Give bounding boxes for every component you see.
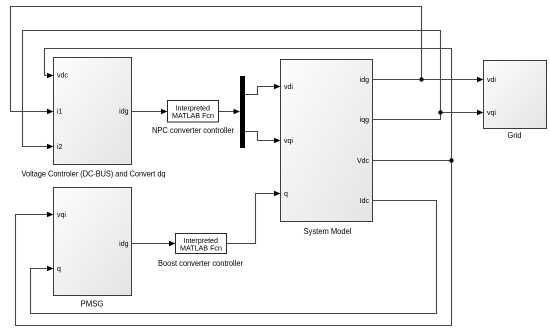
svg-text:Idc: Idc — [360, 198, 370, 205]
wire demux out1 -> System Model vdi — [245, 87, 275, 95]
svg-text:MATLAB Fcn: MATLAB Fcn — [172, 111, 214, 120]
junction on iqg wire — [438, 110, 442, 114]
svg-text:Vdc: Vdc — [357, 158, 370, 165]
svg-text:Grid: Grid — [508, 130, 522, 140]
junction on Vdc wire — [449, 158, 453, 162]
wire PMSG idg -> Boost fcn — [132, 243, 171, 245]
arrow into demux — [234, 109, 241, 115]
svg-text:MATLAB Fcn: MATLAB Fcn — [180, 244, 222, 253]
wire System Model iqg -> Grid vqi — [373, 113, 479, 120]
wire NPC fcn -> demux — [219, 111, 236, 113]
wire feedback Vdc -> vdc — [45, 49, 452, 161]
wire Boost fcn -> System Model q — [227, 194, 276, 244]
subsystem Grid — [484, 61, 547, 141]
svg-text:vdc: vdc — [57, 73, 68, 80]
svg-text:q: q — [284, 191, 288, 198]
subsystem Voltage Controler (DC-BUS) and Convert dq — [22, 58, 166, 179]
arrow into vdc — [47, 73, 54, 79]
svg-text:idg: idg — [119, 109, 128, 116]
svg-text:q: q — [57, 266, 61, 273]
arrow into Grid vdi — [477, 77, 484, 83]
svg-text:Voltage Controler (DC-BUS) and: Voltage Controler (DC-BUS) and Convert d… — [22, 169, 166, 179]
svg-text:System Model: System Model — [304, 226, 352, 236]
arrow into NPC fcn — [161, 109, 168, 115]
wire System Model Vdc — [373, 160, 452, 162]
svg-text:Boost converter controller: Boost converter controller — [158, 258, 243, 268]
arrow into System Model vqi — [274, 138, 281, 144]
svg-text:NPC converter controller: NPC converter controller — [152, 125, 234, 135]
block Boost Interpreted MATLAB Fcn — [158, 234, 243, 269]
block NPC Interpreted MATLAB Fcn — [152, 101, 234, 136]
svg-text:vqi: vqi — [57, 212, 66, 219]
arrow into PMSG q — [47, 266, 54, 272]
wire System Model idg -> Grid vdi — [373, 79, 479, 81]
arrow into Boost fcn — [169, 241, 176, 247]
arrow into PMSG vqi — [47, 212, 54, 218]
arrow into Grid vqi — [477, 110, 484, 116]
wire feedback iqg -> i2 — [23, 31, 441, 147]
subsystem PMSG — [54, 188, 132, 309]
subsystem System Model — [281, 60, 373, 237]
wire demux out2 -> System Model vqi — [245, 132, 275, 141]
wire feedback idg -> i1 — [11, 7, 422, 112]
wire System Model Idc -> PMSG q — [31, 201, 437, 314]
junction on idg wire — [419, 77, 423, 81]
svg-text:i1: i1 — [57, 109, 63, 116]
svg-text:idg: idg — [119, 241, 128, 248]
svg-text:idg: idg — [360, 77, 369, 84]
demux bar — [240, 76, 245, 148]
arrow into i2 — [47, 144, 54, 150]
arrow into i1 — [47, 109, 54, 115]
wire feedback Vdc -> PMSG vqi — [16, 161, 452, 326]
svg-text:i2: i2 — [57, 144, 63, 151]
svg-text:PMSG: PMSG — [81, 299, 104, 309]
svg-text:iqg: iqg — [360, 117, 369, 124]
wire Voltage Controler idg -> NPC fcn — [132, 111, 163, 113]
svg-text:vqi: vqi — [284, 138, 293, 145]
arrow into System Model vdi — [274, 84, 281, 90]
svg-text:vdi: vdi — [487, 77, 496, 84]
svg-text:vdi: vdi — [284, 84, 293, 91]
svg-text:vqi: vqi — [487, 110, 496, 117]
arrow into System Model q — [274, 191, 281, 197]
